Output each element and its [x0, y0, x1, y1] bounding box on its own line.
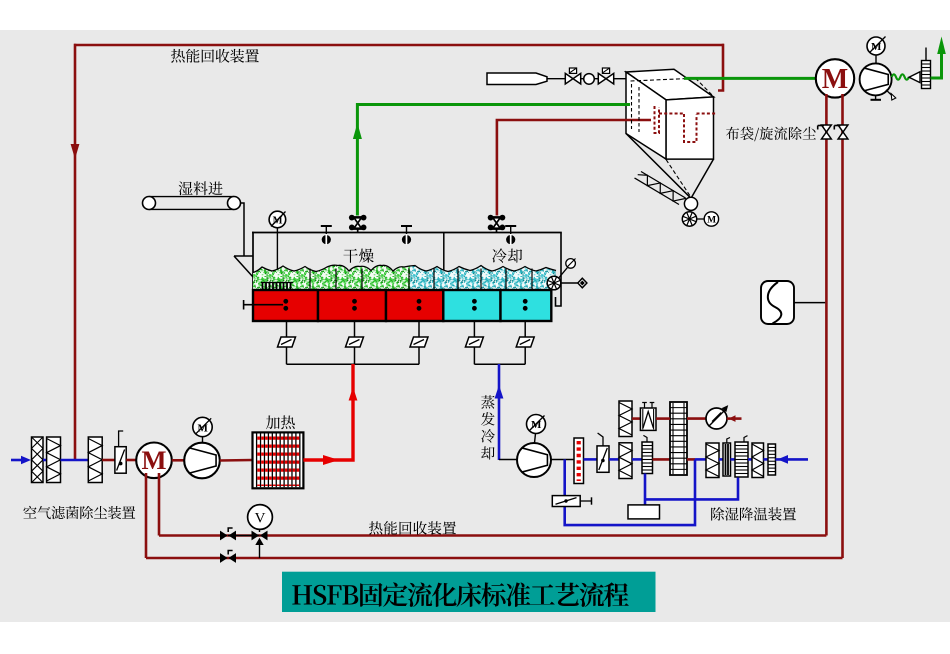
motor small discharge	[566, 259, 576, 269]
wire circle-valve	[594, 78, 598, 80]
filter 3 zigzag	[88, 437, 102, 483]
striped column 1	[642, 442, 653, 474]
relief valve box	[552, 496, 580, 507]
wire star to motor	[697, 218, 705, 220]
inline circle trap	[584, 74, 595, 85]
striped column 3	[768, 444, 776, 475]
svg-text:M: M	[531, 419, 542, 431]
bed left wall	[252, 232, 254, 291]
wire hot-air right drop to baghouse	[718, 44, 723, 91]
probe into cell 1	[244, 304, 283, 306]
wire hot-air left downcomer	[74, 44, 77, 460]
filter 2 zigzag	[47, 437, 61, 483]
feed-zone grate comb	[261, 282, 293, 284]
discharge diamond	[578, 278, 587, 288]
svg-text:M: M	[707, 216, 716, 226]
wire hot-air top header	[74, 44, 724, 47]
blower circle top	[860, 63, 892, 95]
motor M blower-top	[867, 37, 885, 55]
prop fan circle	[706, 408, 727, 429]
wire dark red t1	[632, 417, 640, 420]
blower foot	[875, 95, 877, 99]
title HSFB固定流化床标准工艺流程	[292, 585, 312, 604]
label 蒸发冷却 vertical	[481, 395, 494, 408]
label 干燥	[343, 249, 357, 263]
wire feed drop	[241, 203, 245, 256]
wire green squiggle	[892, 74, 909, 79]
wire green vent out	[931, 52, 942, 78]
wire green drying exhaust	[357, 105, 630, 216]
label 布袋/旋流除尘	[726, 127, 739, 140]
inlet damper	[115, 447, 126, 474]
title banner	[282, 572, 656, 612]
fan evap circle	[517, 443, 551, 477]
exhaust horn	[909, 72, 920, 83]
condensate tank	[628, 505, 660, 519]
wire valve-circle	[581, 78, 584, 80]
wire dark red damper-M1	[126, 459, 137, 462]
wire dark red t2	[656, 417, 670, 420]
motor M blower-main	[193, 417, 212, 436]
three-way valve	[259, 529, 261, 532]
label 热能回收装置 (top)	[171, 49, 185, 63]
wire S-box to pipe	[794, 302, 825, 304]
wire blue b	[609, 458, 619, 461]
control valve B	[598, 73, 613, 84]
wire red pipe down A	[825, 94, 828, 536]
wire blue g	[748, 458, 752, 461]
cool manifold	[474, 363, 525, 365]
flanged exhaust valve (drying)	[349, 215, 355, 221]
flanged exhaust valve (cooling)	[488, 215, 494, 221]
wire black drop-fan	[499, 459, 517, 461]
flow arrow down on left downcomer	[71, 144, 80, 159]
baghouse box	[626, 69, 714, 100]
vent valve V1 on bed top	[321, 225, 332, 227]
label 空气滤菌除尘装置	[23, 506, 36, 519]
zigzag column top	[619, 401, 632, 437]
bed top line	[252, 232, 562, 234]
valve on outer return	[220, 553, 228, 563]
V controller circle	[248, 505, 273, 530]
wire blue cool drop	[498, 364, 501, 460]
wire discharge out	[561, 282, 578, 284]
motor M feed	[269, 211, 286, 228]
hot manifold	[287, 363, 420, 365]
baghouse hopper	[626, 134, 714, 199]
exhaust louver	[922, 61, 931, 89]
bed wind-box cells (3 hot red, 2 cool cyan)	[253, 290, 318, 321]
wire blue e	[719, 458, 723, 461]
baghouse left-face bags dashed	[631, 84, 633, 129]
blower circle main	[184, 443, 220, 479]
wire red return outer	[146, 557, 843, 560]
flow arrow up green	[353, 123, 362, 139]
vent valve V2 on bed top	[401, 225, 412, 227]
wire dark red t3	[687, 417, 706, 420]
baghouse hopper hidden edge	[666, 160, 691, 198]
valve on pipe B	[838, 125, 848, 139]
cell nozzle dots	[283, 299, 288, 304]
flow arrow red up	[349, 387, 358, 401]
wire blue return inlet	[776, 458, 809, 461]
filter 1 lattice	[32, 437, 44, 483]
svg-text:M: M	[273, 216, 283, 227]
wire blue under-loop	[644, 474, 647, 506]
wire black link to 3-way	[228, 535, 260, 537]
fan M2 circle	[816, 59, 854, 97]
wire blue f	[731, 458, 736, 461]
svg-text:M: M	[822, 64, 848, 95]
wire blue d	[695, 458, 706, 461]
striped column 2	[735, 442, 748, 477]
wire dark red blower-heater	[220, 459, 253, 462]
cell inlet ducts with dampers	[286, 321, 288, 337]
flow arrow green vent	[937, 37, 946, 55]
bed weir plates	[309, 269, 311, 291]
bed zone divider	[443, 233, 445, 291]
svg-text:M: M	[198, 422, 209, 434]
wire valve-baghouse	[614, 78, 626, 80]
control valve A	[565, 73, 580, 84]
flow arrow red right	[323, 455, 339, 465]
wire red return inner	[159, 534, 826, 537]
flow arrow blue left	[778, 455, 789, 464]
heater grid	[253, 432, 304, 488]
label 热能回收装置 (bottom)	[369, 521, 382, 534]
bed right wall	[556, 233, 562, 307]
material bed cyan stipple (cooling)	[253, 265, 556, 290]
label 湿料进	[178, 182, 192, 196]
wire red M1 right leg	[158, 473, 161, 536]
wire blue a	[584, 458, 598, 461]
zigzag column low-3	[752, 443, 764, 478]
wire blue f2-f3	[61, 459, 89, 462]
rotary star feeder	[682, 212, 696, 226]
feed agitator shaft	[276, 228, 278, 287]
wire red pipe down B	[841, 94, 844, 558]
valve on pipe A	[822, 125, 832, 139]
motor M rotary	[704, 212, 718, 226]
wire green baghouse outlet	[684, 77, 816, 80]
rotary airlock circle	[684, 197, 697, 210]
vent valve V3 on bed top	[505, 225, 516, 227]
svg-text:M: M	[871, 41, 882, 53]
zigzag column low-2	[706, 443, 719, 478]
heat exchanger S-box	[761, 281, 794, 324]
V-box heater	[640, 408, 656, 430]
steam column	[574, 438, 584, 484]
wire dark red M1-blower	[172, 459, 184, 462]
dark column	[723, 443, 731, 476]
wire blue h	[764, 458, 769, 461]
feed chute	[234, 256, 253, 277]
wire dark red wheel in	[653, 458, 671, 461]
silencer capsule	[487, 73, 547, 85]
wire blue f1-f2	[43, 459, 47, 462]
zigzag column low-1	[619, 443, 632, 479]
flow arrow blue inlet	[11, 459, 23, 462]
discharge motor link	[559, 268, 568, 279]
wire red M1 left leg	[145, 473, 148, 558]
wire silencer-valve	[547, 78, 566, 80]
wire bright red heater out	[303, 364, 353, 460]
baghouse hidden edges	[631, 78, 713, 95]
svg-text:M: M	[141, 445, 166, 475]
valve on inner return	[220, 531, 228, 541]
motor M evap	[527, 415, 546, 434]
fan M1 circle	[136, 443, 172, 479]
flow arrow blue up	[495, 385, 504, 399]
wire cooling exhaust to baghouse	[497, 120, 651, 216]
label 加热	[266, 415, 280, 429]
wire blue bottom loop	[565, 459, 695, 525]
conveyor roller right	[228, 197, 241, 210]
rotary wheel grid	[670, 402, 687, 475]
label 除湿降温装置	[711, 507, 724, 520]
wire dark red f3-damper	[102, 459, 115, 462]
label 冷却	[492, 248, 507, 262]
wire black fan-heatcol	[551, 459, 574, 461]
hopper drag conveyor strip	[635, 172, 686, 205]
conveyor belt	[149, 196, 234, 198]
blower drain	[886, 90, 893, 96]
discharge star wheel	[547, 276, 561, 290]
conveyor roller left	[143, 197, 156, 210]
svg-text:V: V	[255, 511, 266, 527]
wire blue c	[632, 458, 642, 461]
material surface line	[253, 265, 556, 272]
wire dark red t4	[727, 417, 742, 420]
damper 2	[597, 446, 609, 472]
bag internal path dashed red	[655, 106, 660, 133]
wire dark red wheel out	[687, 458, 695, 461]
